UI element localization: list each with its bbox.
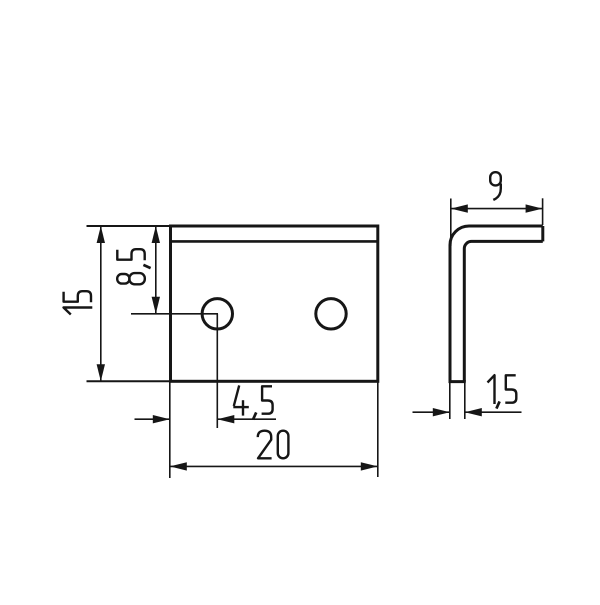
dimension 4,5: text "4,5" <box>233 385 272 419</box>
front view: bend line <box>172 240 378 243</box>
dimension 4,5: arrow right-pointing <box>153 415 170 423</box>
side view: leg foot <box>449 380 466 383</box>
dimension 20: dim line <box>170 465 378 467</box>
dimension 4,5: arrow left-pointing <box>217 415 234 423</box>
dimension 1,5: left extension line <box>449 383 451 419</box>
dimension 1,5: dim line right segment <box>465 411 522 413</box>
dimension 1,5: arrow right-pointing <box>433 408 450 416</box>
dimension 4,5: dim line right segment <box>217 418 276 420</box>
dimension 9: text "9" <box>490 172 501 200</box>
dimension 8,5: leader to hole center <box>131 313 218 315</box>
extension line bottom-left (dim 15) <box>87 380 171 382</box>
hole H1 (left) <box>202 299 232 329</box>
dimension 20: text "20" <box>258 431 289 459</box>
dimension 20: arrow left <box>170 462 187 470</box>
front view: plate outline <box>171 226 378 381</box>
dimension 20: left extension line <box>169 382 171 478</box>
dimension 15: dim line <box>100 226 102 381</box>
dimension 15: text "15" (rotated) <box>64 291 93 314</box>
dimension 1,5: text "1,5" <box>488 375 517 408</box>
dimension 8,5: dim line <box>155 226 157 314</box>
dimension 1,5: arrow left-pointing <box>465 408 482 416</box>
extension line top-left (shared by dims 15 and 8,5) <box>87 225 171 227</box>
dimension 1,5: right extension line <box>464 383 466 419</box>
dimension 20: arrow right <box>361 462 378 470</box>
dimension 20: right extension line <box>377 382 379 477</box>
dimension 4,5: dim line left segment <box>135 418 170 420</box>
dimension 9: dim line <box>451 208 543 210</box>
side view: flange end cap <box>541 226 544 241</box>
dimension 9: right extension line <box>542 198 544 225</box>
dimension 8,5: text "8,5" (rotated) <box>117 249 150 284</box>
dimension 15: arrow up <box>97 226 105 243</box>
dimension 8,5: arrow up <box>152 226 160 243</box>
dimension 15: arrow down <box>97 364 105 381</box>
dimension 4,5: drop line from hole center <box>216 314 218 428</box>
dimension 9: arrow right <box>526 204 543 212</box>
side view: outer profile <box>450 226 543 382</box>
hole H2 (right) <box>316 299 346 329</box>
dimension 9: arrow left <box>451 204 468 212</box>
dimension 9: left extension line <box>450 199 452 247</box>
dimension 8,5: arrow down <box>152 297 160 314</box>
side view: inner profile <box>464 241 543 381</box>
dimension 1,5: dim line left segment <box>413 411 450 413</box>
